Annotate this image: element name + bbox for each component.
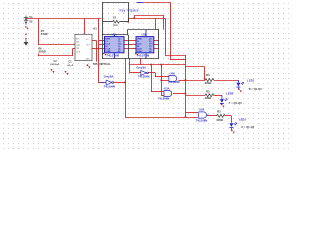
svg-text:80 nF: 80 nF (68, 65, 74, 67)
svg-text:LED2: LED2 (226, 91, 233, 95)
svg-text:GreyBA: GreyBA (104, 74, 114, 78)
svg-text:R3: R3 (206, 90, 210, 94)
svg-text:220Ω: 220Ω (205, 81, 212, 85)
svg-text:GreyXA: GreyXA (136, 66, 146, 70)
svg-text:74LS04N: 74LS04N (104, 85, 115, 89)
svg-text:555_VIRTUAL: 555_VIRTUAL (93, 62, 111, 66)
svg-text:STHD: STHD (41, 33, 48, 36)
svg-text:CON: CON (76, 52, 81, 54)
svg-text:LED1: LED1 (247, 79, 254, 83)
svg-text:R = Q1·Q0: R = Q1·Q0 (249, 87, 263, 91)
svg-text:74LS76N: 74LS76N (137, 54, 150, 58)
svg-text:74LS08N: 74LS08N (196, 119, 207, 123)
svg-text:100.50μF: 100.50μF (50, 64, 60, 66)
svg-text:U4A: U4A (170, 72, 175, 76)
svg-text:5V: 5V (29, 19, 32, 23)
svg-text:A = Q1·Q0: A = Q1·Q0 (241, 125, 254, 129)
svg-text:V1: V1 (29, 15, 33, 19)
svg-text:74LS08N: 74LS08N (168, 80, 179, 84)
svg-text:R4: R4 (206, 73, 210, 77)
svg-text:74LS08N: 74LS08N (158, 97, 169, 101)
svg-text:R5: R5 (113, 15, 117, 19)
svg-text:220Ω: 220Ω (217, 118, 224, 122)
svg-text:GND: GND (86, 59, 91, 61)
svg-text:Key = Space: Key = Space (120, 9, 139, 13)
svg-text:U5A: U5A (199, 108, 204, 112)
svg-text:2GND: 2GND (137, 51, 143, 53)
svg-text:1GND: 1GND (105, 51, 111, 53)
svg-text:74LS04N: 74LS04N (138, 75, 149, 79)
svg-text:1kΩ: 1kΩ (113, 23, 118, 27)
svg-text:SGND: SGND (39, 50, 46, 53)
svg-text:U3A: U3A (164, 87, 169, 91)
svg-text:74LS76N: 74LS76N (106, 54, 119, 58)
svg-text:TRI: TRI (76, 48, 79, 50)
svg-text:LED3: LED3 (239, 118, 246, 122)
svg-text:U2B: U2B (142, 33, 147, 37)
svg-text:Y = Q1·Q0: Y = Q1·Q0 (229, 101, 242, 105)
svg-text:A1: A1 (93, 27, 97, 31)
svg-text:U2A: U2A (112, 33, 117, 37)
svg-text:220Ω: 220Ω (205, 96, 212, 100)
svg-text:R2: R2 (217, 109, 221, 113)
